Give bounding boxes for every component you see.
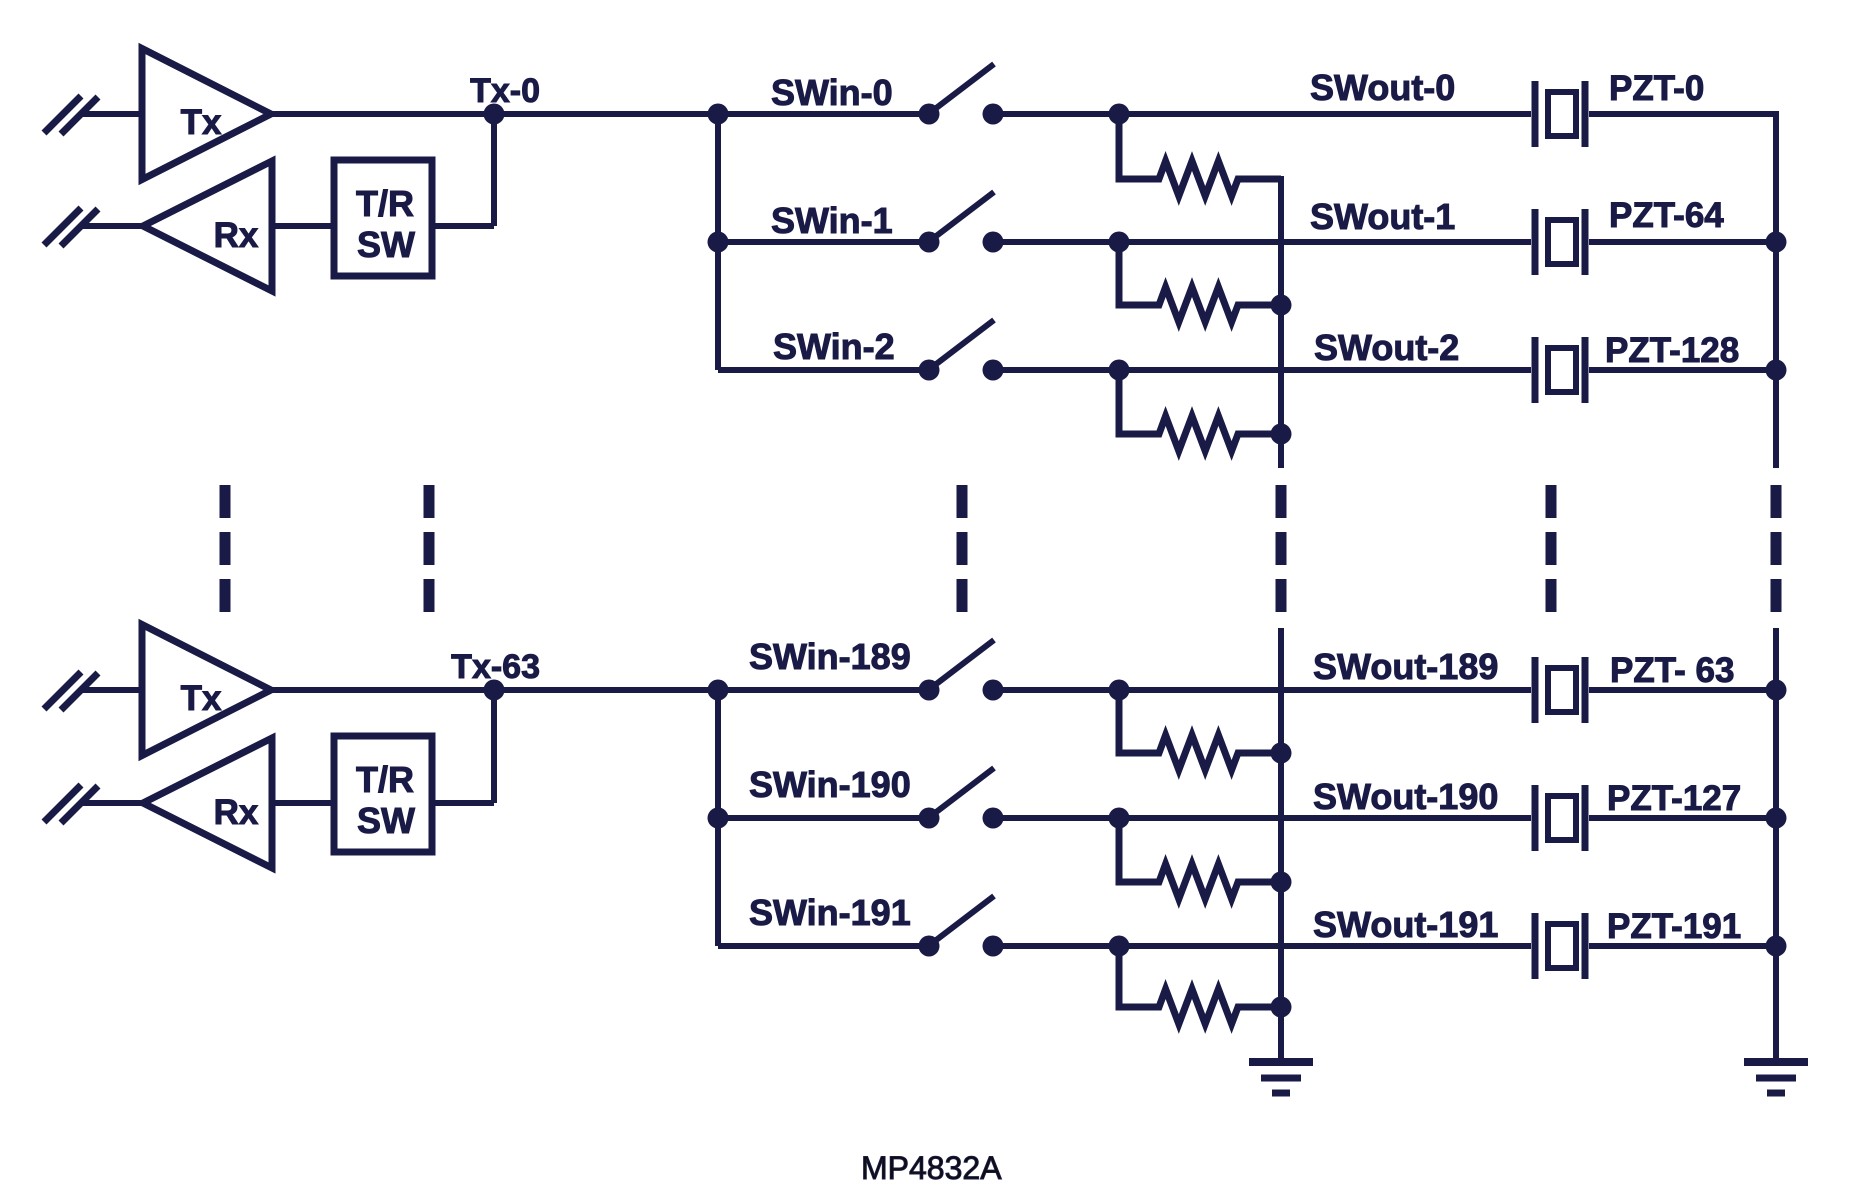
node junction at SWin-191 output [1109,936,1130,957]
node input bus at SWin-190 [708,808,729,829]
svg-text:SWout-191: SWout-191 [1313,904,1498,945]
svg-text:PZT-191: PZT-191 [1607,907,1741,946]
resistor bias R-0 [1119,114,1281,196]
svg-text:MP4832A: MP4832A [861,1150,1002,1186]
transducer PZT-127 [1535,785,1585,851]
node resistor R-191 to bias bus [1271,997,1292,1018]
wire riser to node Tx-63 [491,690,497,803]
amplifier Rx [143,738,272,868]
wire bias bus dashed continuation [1276,485,1287,613]
svg-text:PZT-127: PZT-127 [1607,779,1741,818]
svg-text:Rx: Rx [214,216,259,255]
node return bus at PZT-64 [1766,232,1787,253]
svg-text:SWout-189: SWout-189 [1313,646,1498,687]
switch SWin-189 [919,640,1004,701]
node resistor R-190 to bias bus [1271,872,1292,893]
node junction at SWin-2 output [1109,360,1130,381]
node resistor R-189 to bias bus [1271,743,1292,764]
wire Rx output to T/R SW [272,223,334,229]
resistor bias R-191 [1119,946,1281,1024]
svg-text:Tx: Tx [181,679,222,718]
node return bus at PZT-128 [1766,360,1787,381]
wire SWin-1 switch output [993,239,1119,245]
svg-text:Tx-63: Tx-63 [451,648,540,686]
wire PZT-127 to ground bus [1589,815,1776,821]
wire Tx input line (Tx-0 channel) [81,111,142,117]
amplifier Tx (Tx-0) [142,49,271,180]
node return bus at PZT-191 [1766,936,1787,957]
wire T/R SW to riser [432,223,494,229]
block T/R SW [334,736,432,852]
ellipsis dashes T/R SW column [424,485,435,613]
wire Tx output (Tx-0 net) [271,111,718,117]
bus slash marks on Tx input [44,672,81,709]
svg-text:Rx: Rx [214,793,259,832]
wire PZT- 63 to ground bus [1589,687,1776,693]
transducer PZT-191 [1535,913,1585,979]
wire PZT return bus lower segment [1773,628,1779,1058]
ellipsis dashes switch column [957,485,968,613]
svg-text:SWin-2: SWin-2 [773,326,895,367]
svg-text:SW: SW [357,224,415,265]
wire SWout-191 line [1119,943,1531,949]
wire SWout-1 line [1119,239,1531,245]
wire SWout-0 line [1119,111,1531,117]
switch SWin-190 [919,768,1004,829]
wire riser to node Tx-0 [491,114,497,226]
svg-text:SWout-1: SWout-1 [1310,196,1455,237]
svg-text:Tx: Tx [181,103,222,142]
svg-text:SW: SW [357,800,415,841]
wire PZT-64 to ground bus [1589,239,1776,245]
node resistor R-2 to bias bus [1271,424,1292,445]
bus slash marks on Rx input [44,785,81,822]
wire SWin-2 switch output [993,367,1119,373]
node Tx-63 junction dot [484,680,505,701]
wire SWin-0 switch output [993,111,1119,117]
bus slash marks on Rx input [44,208,81,245]
svg-text:SWin-0: SWin-0 [771,72,893,113]
amplifier Rx [143,161,272,291]
wire input bus vertical (bottom) [715,690,721,946]
wire SWin-191 from input bus [718,943,929,949]
resistor bias R-2 [1119,370,1281,451]
svg-text:SWin-189: SWin-189 [749,636,911,677]
svg-text:PZT- 63: PZT- 63 [1610,651,1734,690]
wire SWin-2 from input bus [718,367,929,373]
transducer PZT- 63 [1535,657,1585,723]
svg-text:SWout-2: SWout-2 [1314,327,1459,368]
transducer PZT-128 [1535,337,1585,403]
wire T/R SW to riser [432,800,494,806]
svg-text:Tx-0: Tx-0 [470,72,540,110]
node junction at SWin-190 output [1109,808,1130,829]
wire SWin-189 from input bus [718,687,929,693]
resistor bias R-189 [1119,690,1281,770]
node Tx-0 junction dot [484,104,505,125]
switch SWin-2 [919,320,1004,381]
svg-text:SWout-0: SWout-0 [1310,67,1455,108]
wire SWin-189 switch output [993,687,1119,693]
ellipsis dashes Tx/Rx column [220,485,231,613]
wire PZT-191 to ground bus [1589,943,1776,949]
ground symbol bias bus [1249,1062,1313,1093]
wire bias bus lower segment [1278,628,1284,1058]
wire PZT-0 to ground bus [1589,111,1776,117]
wire PZT-128 to ground bus [1589,367,1776,373]
wire Rx output to T/R SW [272,800,334,806]
ground symbol PZT return bus [1744,1062,1808,1093]
bus slash marks on Tx input [44,96,81,133]
wire SWin-1 from input bus [718,239,929,245]
svg-text:SWin-1: SWin-1 [771,200,893,241]
wire input bus vertical (top) [715,114,721,370]
switch SWin-191 [919,896,1004,957]
wire Rx input line [81,800,143,806]
wire SWin-190 from input bus [718,815,929,821]
wire Tx input line (Tx-63 channel) [81,687,142,693]
node input bus at SWin-0 [708,104,729,125]
switch SWin-1 [919,192,1004,253]
wire PZT return bus dashed continuation [1771,485,1782,613]
svg-text:PZT-64: PZT-64 [1609,196,1724,235]
amplifier Tx (Tx-63) [142,625,271,756]
wire bias bus upper segment [1278,176,1284,468]
node resistor R-1 to bias bus [1271,295,1292,316]
wire SWin-190 switch output [993,815,1119,821]
wire Rx input line [81,223,143,229]
node input bus at SWin-1 [708,232,729,253]
wire SWin-0 from input bus [718,111,929,117]
svg-text:SWin-191: SWin-191 [749,892,911,933]
svg-text:SWin-190: SWin-190 [749,764,911,805]
transducer PZT-64 [1535,209,1585,275]
wire PZT return bus upper segment [1773,111,1779,468]
transducer PZT-0 [1535,81,1585,147]
node junction at SWin-0 output [1109,104,1130,125]
svg-text:PZT-128: PZT-128 [1605,331,1739,370]
wire SWout-2 line [1119,367,1531,373]
node junction at SWin-189 output [1109,680,1130,701]
svg-text:SWout-190: SWout-190 [1313,776,1498,817]
wire SWin-191 switch output [993,943,1119,949]
svg-text:T/R: T/R [356,183,414,224]
svg-text:T/R: T/R [356,759,414,800]
node return bus at PZT-127 [1766,808,1787,829]
wire SWout-189 line [1119,687,1531,693]
resistor bias R-1 [1119,242,1281,322]
node input bus at SWin-189 [708,680,729,701]
svg-text:PZT-0: PZT-0 [1609,69,1704,108]
wire Tx output (Tx-63 net) [271,687,718,693]
ellipsis dashes PZT column [1546,485,1557,613]
node junction at SWin-1 output [1109,232,1130,253]
wire SWout-190 line [1119,815,1531,821]
block T/R SW [334,160,432,276]
switch SWin-0 [919,64,1004,125]
resistor bias R-190 [1119,818,1281,899]
node return bus at PZT-63 [1766,680,1787,701]
